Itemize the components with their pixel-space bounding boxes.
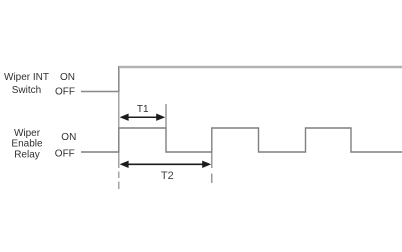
svg-text:T1: T1: [137, 104, 149, 115]
wire: relay waveform (square pulses): [81, 128, 402, 152]
label: Wiper INT Switch (signal name): [4, 72, 49, 96]
node: tick at end of T1 (extends above first pulse): [165, 104, 167, 128]
wire: switch ON level segment: [119, 66, 402, 69]
wire: switch rising edge at t0: [118, 66, 120, 92]
node: timing reference line at t0 (vertical, dashed tail): [118, 92, 120, 189]
svg-text:ON: ON: [61, 132, 76, 143]
dimension arrow: T1 (double-headed): [120, 114, 166, 121]
svg-text:OFF: OFF: [55, 87, 75, 98]
dimension arrow: T2 (double-headed): [120, 161, 212, 168]
svg-text:Wiper INT: Wiper INT: [4, 72, 49, 83]
svg-text:Wiper: Wiper: [14, 128, 41, 139]
label: Wiper Enable Relay (signal name): [11, 128, 43, 161]
svg-text:Switch: Switch: [12, 85, 41, 96]
node: tick at start of second pulse (extends below OFF, dashed tail): [211, 152, 213, 183]
svg-text:OFF: OFF: [55, 149, 75, 160]
svg-text:T2: T2: [161, 170, 174, 182]
wire: switch OFF level segment: [81, 91, 119, 93]
svg-text:ON: ON: [60, 72, 75, 83]
svg-text:Enable: Enable: [11, 139, 43, 150]
svg-text:Relay: Relay: [14, 150, 40, 161]
